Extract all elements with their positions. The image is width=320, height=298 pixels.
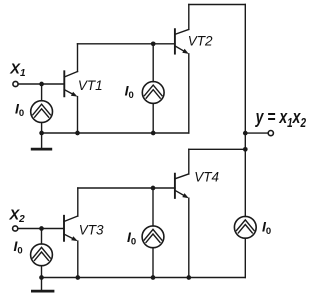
transistor VT1 <box>64 71 77 96</box>
current source I0 right <box>234 216 256 238</box>
svg-text:X1: X1 <box>9 61 26 79</box>
current source I0 input2 <box>31 244 53 266</box>
ground gate2 <box>32 290 53 293</box>
node gate2 bottom-left junction <box>39 275 44 280</box>
wire right rail upper <box>244 5 246 217</box>
wire top rail gate2 <box>189 148 246 150</box>
ground gate1 <box>32 148 51 151</box>
svg-text:I0: I0 <box>262 218 271 237</box>
current source I0 mid2 <box>142 226 164 248</box>
wire VT2 collector lead <box>188 5 190 30</box>
svg-text:I0: I0 <box>15 100 24 119</box>
wire bottom rail gate1 <box>42 132 189 134</box>
wire VT1 collector lead <box>77 44 79 72</box>
terminal X1 <box>13 81 18 86</box>
node mid source1 junction <box>151 131 156 136</box>
wire top rail gate1 <box>189 4 246 6</box>
transistor VT4 <box>175 174 189 199</box>
terminal output <box>268 131 273 136</box>
node X1 junction <box>39 82 44 87</box>
svg-text:I0: I0 <box>14 238 23 257</box>
node gate2 top rail junction <box>243 147 248 152</box>
svg-text:X2: X2 <box>9 208 26 226</box>
svg-text:VT4: VT4 <box>194 170 219 185</box>
transistor VT3 <box>64 216 78 241</box>
wire X2 input <box>18 228 63 230</box>
wire ground stub gate1 <box>41 133 43 148</box>
wire right rail lower <box>244 238 246 277</box>
node rail gate2 junction <box>151 186 156 191</box>
wire mid source2 bottom <box>152 248 154 278</box>
svg-text:I0: I0 <box>127 229 136 248</box>
node VT3 emitter junction <box>75 275 80 280</box>
wire X1 input <box>18 83 63 85</box>
node VT1 emitter junction <box>75 131 80 136</box>
wire VT2 emitter lead <box>188 54 190 133</box>
wire mid source2 top <box>152 188 154 226</box>
svg-text:VT1: VT1 <box>78 78 103 93</box>
node VT4 emitter junction <box>186 275 191 280</box>
svg-text:VT3: VT3 <box>79 222 104 237</box>
wire X1 source top <box>41 84 43 101</box>
wire X1 source bottom <box>41 123 43 134</box>
wire VT3 emitter lead <box>77 241 79 277</box>
wire VT4 collector lead <box>188 149 190 174</box>
node gate1 bottom-left junction <box>39 131 44 136</box>
wire VT3 collector lead <box>77 188 79 216</box>
wire VT4 emitter lead <box>188 198 190 277</box>
node output junction <box>243 131 248 136</box>
transistor VT2 <box>175 29 189 54</box>
node X2 junction <box>39 226 44 231</box>
terminal X2 <box>13 226 18 231</box>
svg-text:y = x1x2: y = x1x2 <box>255 107 307 130</box>
wire mid source1 top <box>152 44 154 82</box>
node mid source2 junction <box>151 275 156 280</box>
node rail gate1 junction <box>151 41 156 46</box>
wire X2 source bottom <box>41 266 43 278</box>
wire ground stub gate2 <box>41 278 43 291</box>
current source I0 mid1 <box>142 82 164 104</box>
wire mid source1 bottom <box>152 103 154 133</box>
svg-text:VT2: VT2 <box>188 33 213 48</box>
wire X2 source top <box>41 229 43 244</box>
wire VT1 emitter lead <box>77 97 79 133</box>
wire rail gate2 collector-base <box>78 187 175 189</box>
wire output <box>245 132 268 134</box>
svg-text:I0: I0 <box>125 82 134 101</box>
wire bottom rail gate2 <box>42 277 246 279</box>
wire rail gate1 collector-base <box>78 43 175 45</box>
current source I0 input1 <box>31 101 53 123</box>
